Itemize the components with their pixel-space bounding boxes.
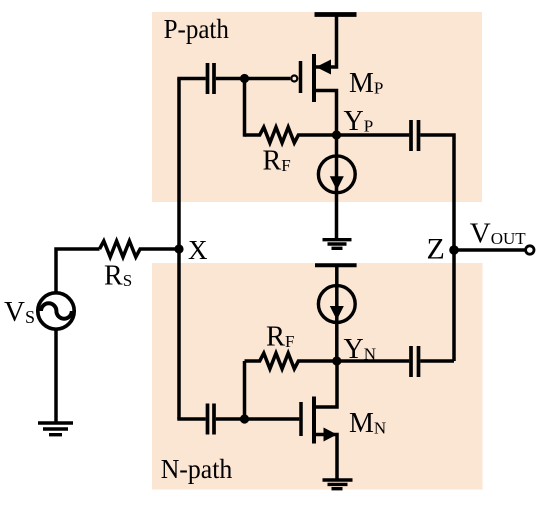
svg-text:VOUT: VOUT — [470, 217, 527, 249]
capacitor C4 plates (N-path output) — [411, 346, 419, 377]
wire MP drain to node YP — [314, 91, 337, 136]
resistor RF (N-path) — [245, 353, 337, 369]
wire Z to output terminal — [454, 248, 525, 252]
wire X corner to capacitor C1 — [177, 77, 205, 81]
node junction at MN gate — [240, 414, 249, 423]
VDD bar (N-path supply) — [315, 263, 357, 267]
wire capacitor C3 to node Z — [420, 135, 454, 361]
svg-text:X: X — [188, 235, 208, 265]
wire MN drain to node YN — [314, 361, 337, 407]
current source I2 arrow — [330, 306, 344, 320]
wire VS to RS — [56, 249, 100, 293]
N-path shaded region — [152, 263, 483, 490]
transistor MN source arrow — [324, 428, 338, 442]
ground (below I1) — [323, 240, 352, 249]
wire capacitor C1 to MP gate — [216, 77, 290, 81]
svg-text:VS: VS — [4, 296, 35, 328]
wire YP to capacitor C3 — [337, 133, 410, 137]
resistor RS — [100, 241, 180, 257]
wire X corner to capacitor C2 — [177, 417, 205, 421]
source VS circle — [38, 293, 74, 329]
capacitor C3 plates (P-path output) — [411, 120, 419, 151]
VDD bar (P-path supply) — [315, 12, 357, 17]
svg-text:P-path: P-path — [164, 13, 230, 44]
capacitor C2 plates (N-path input) — [208, 404, 215, 435]
wire VDD to MP source — [314, 14, 337, 67]
ground (below VS) — [38, 423, 73, 435]
wire capacitor C4 to node Z — [420, 359, 454, 363]
transistor MP source arrow — [316, 60, 331, 75]
node YN junction dot — [332, 356, 341, 365]
svg-text:RS: RS — [104, 261, 132, 292]
wire gate node down to RF — [243, 79, 247, 137]
output terminal VOUT open circle — [526, 246, 534, 254]
transistor MN channel bar — [312, 397, 316, 444]
current source I1 circle — [318, 156, 355, 193]
current source I2 wire (N-path) — [335, 265, 339, 361]
svg-text:N-path: N-path — [161, 453, 233, 484]
wire RF down to gate node (N-path) — [243, 361, 247, 419]
current source I2 circle — [318, 286, 355, 323]
wire X column vertical — [177, 79, 181, 420]
transistor MN gate bar — [299, 402, 303, 436]
current source I1 wire (P-path) — [335, 135, 339, 240]
wire YN to capacitor C4 — [337, 359, 409, 363]
transistor MP gate bubble — [291, 76, 297, 82]
source VS sine symbol — [41, 303, 72, 318]
wire MN source to ground — [314, 435, 337, 481]
current source I1 arrow — [330, 176, 344, 190]
resistor RF (P-path) — [245, 127, 337, 143]
node Z junction dot — [449, 245, 459, 255]
wire VS to ground — [54, 330, 58, 424]
capacitor C1 plates (P-path input) — [208, 63, 215, 94]
node X junction dot — [174, 244, 183, 253]
svg-text:Z: Z — [427, 233, 445, 266]
ground (below MN) — [323, 480, 353, 489]
node junction at MP gate — [240, 74, 249, 83]
transistor MP gate bar — [299, 61, 303, 93]
wire capacitor C2 to MN gate — [216, 417, 299, 421]
node YP junction dot — [332, 130, 341, 139]
transistor MP channel bar — [312, 54, 316, 102]
P-path shaded region — [152, 12, 482, 202]
